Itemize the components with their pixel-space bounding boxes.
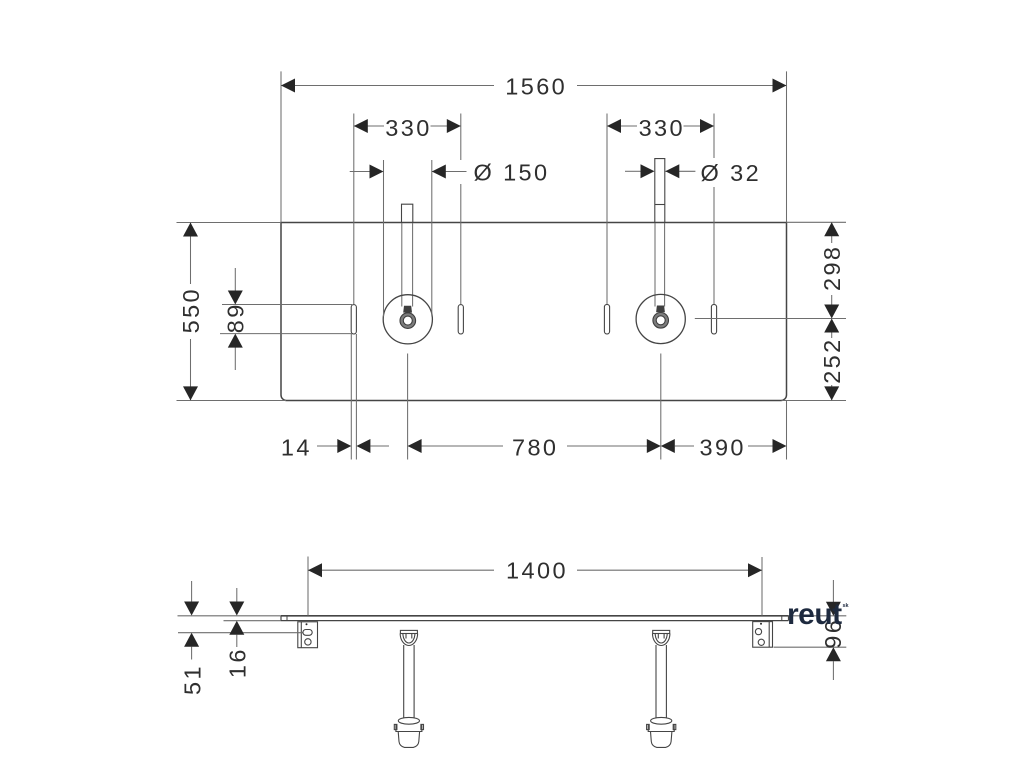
right spout projection lines	[654, 223, 656, 307]
slab left end	[280, 616, 282, 621]
dimension 1400	[308, 557, 762, 616]
dimension 14	[281, 434, 389, 460]
svg-text:780: 780	[512, 434, 558, 460]
slab bottom edge	[281, 620, 789, 622]
countertop plate outline	[281, 223, 787, 401]
right group centre line below	[660, 354, 662, 460]
left rosette circle	[383, 295, 432, 344]
dimension 96	[774, 580, 847, 680]
reuter watermark logo	[787, 598, 850, 631]
dimension 89	[220, 268, 352, 370]
right spout tube tick	[655, 204, 665, 206]
left group centre line below	[407, 354, 409, 460]
slab right sleeve	[781, 616, 783, 621]
svg-text:16: 16	[224, 647, 250, 678]
left spout projection lines	[401, 223, 403, 307]
dimension Ø32	[625, 160, 761, 186]
svg-text:390: 390	[699, 434, 745, 460]
slab left sleeve	[286, 616, 288, 621]
svg-text:330: 330	[385, 115, 431, 141]
dimension 330 right	[607, 114, 714, 305]
svg-text:14: 14	[281, 434, 312, 460]
dimension 390	[661, 434, 787, 460]
left handle ring	[402, 315, 414, 327]
right handle ring	[655, 314, 667, 326]
svg-text:51: 51	[180, 664, 206, 695]
svg-text:298: 298	[819, 245, 845, 291]
left handle lever	[403, 306, 412, 313]
slot S1	[351, 305, 356, 334]
dimension 298 / 252	[782, 222, 847, 400]
svg-text:330: 330	[639, 115, 685, 141]
slot S3	[604, 304, 609, 334]
dimension 51	[178, 581, 303, 695]
left bracket screw dot	[306, 623, 308, 625]
svg-text:Ø 32: Ø 32	[701, 160, 762, 186]
dimension Ø150	[350, 160, 550, 317]
right wall bracket	[753, 622, 773, 648]
right rosette circle	[636, 294, 685, 343]
centre reference line right group	[695, 318, 846, 320]
plate right edge extension below	[786, 401, 788, 460]
right handle lever	[656, 306, 665, 313]
slot S2	[458, 305, 463, 334]
svg-text:89: 89	[223, 302, 249, 333]
right drain trap	[647, 630, 676, 747]
dimension 16	[224, 588, 282, 678]
right bracket screw dot	[760, 623, 762, 625]
left wall bracket	[298, 622, 318, 648]
svg-text:1400: 1400	[506, 557, 568, 583]
dimension 780	[408, 434, 661, 460]
svg-text:550: 550	[178, 287, 204, 333]
dimension 550	[177, 223, 287, 401]
slab top edge	[281, 615, 789, 617]
svg-text:252: 252	[819, 337, 845, 383]
dimension 330 left	[354, 114, 461, 305]
svg-text:1560: 1560	[505, 74, 567, 100]
svg-text:sk: sk	[843, 603, 850, 609]
slab right end	[788, 616, 790, 621]
slot S1 edge extension lines	[350, 334, 352, 460]
svg-text:reut: reut	[787, 598, 842, 631]
slot S4	[711, 304, 716, 334]
left drain trap	[394, 630, 423, 747]
dimension 1560	[281, 71, 787, 222]
right spout tube	[655, 159, 665, 223]
left spout tab	[402, 204, 413, 222]
svg-text:Ø 150: Ø 150	[473, 160, 549, 186]
